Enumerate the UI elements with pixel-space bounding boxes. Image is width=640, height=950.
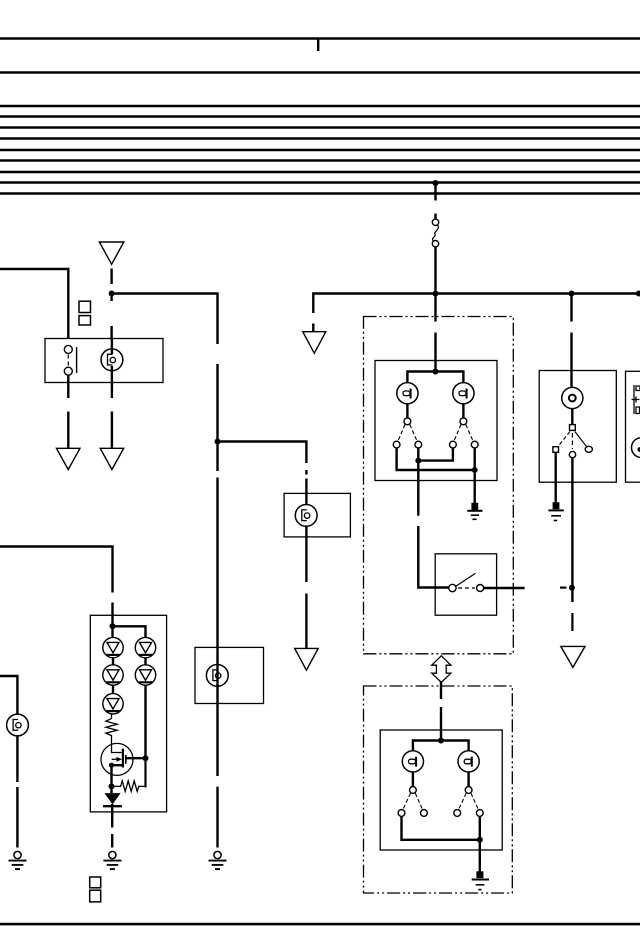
node TD3 bbox=[477, 837, 483, 843]
bulb B1 bracket bbox=[108, 354, 113, 365]
terminal RM bbox=[569, 451, 575, 457]
transistor Q1 gate bar bbox=[125, 755, 127, 764]
page connector arrow T1 bbox=[303, 332, 326, 354]
wire from left edge y676 bbox=[0, 676, 17, 714]
wire below diode bbox=[111, 804, 113, 828]
double arrow DA bbox=[432, 656, 451, 683]
wire TD to ground G1 bbox=[474, 470, 476, 503]
wire LEDR1-LEDR2 bbox=[144, 658, 146, 665]
wire ST2 out of DB1 bbox=[484, 587, 525, 589]
box B1 (lamp + switch unit) bbox=[45, 339, 163, 383]
wire coil3 to contact bbox=[412, 772, 414, 787]
wire below SW1 bbox=[67, 375, 69, 398]
wire x217 long run bbox=[216, 478, 218, 777]
resistor R2 (horizontal zigzag) bbox=[112, 781, 145, 792]
switch arm C4-TC2 bbox=[459, 793, 467, 809]
tick on bus line 1 bbox=[317, 39, 319, 51]
switch box SB1 bbox=[435, 554, 496, 615]
dashed wire to arrow T2 bbox=[305, 594, 307, 649]
node on bus line 10 bbox=[433, 180, 439, 186]
node G (gate) bbox=[143, 755, 149, 761]
bulb B2 filament bbox=[304, 513, 309, 518]
armature square SQ bbox=[570, 425, 576, 431]
node R2a bbox=[438, 738, 444, 744]
circuit breaker CB (top terminal) bbox=[432, 219, 438, 225]
node H2 bbox=[569, 291, 575, 297]
terminal RR (ellipse) bbox=[585, 446, 592, 452]
feed rail right section bbox=[313, 294, 640, 314]
switch SW1 dashed contact bbox=[67, 355, 69, 367]
transistor Q1 source line bbox=[111, 764, 123, 766]
partial bulb filament bbox=[637, 447, 640, 452]
bus line 1 bbox=[0, 37, 640, 39]
wire to ground G4 bbox=[16, 787, 18, 848]
connector code square S1 bbox=[79, 301, 91, 312]
bus line 5 bbox=[0, 126, 640, 128]
wire inside DB1 bbox=[434, 333, 436, 372]
wire into box B2 bbox=[305, 479, 307, 505]
relay arm left (dashed) bbox=[558, 432, 570, 447]
node L1 bbox=[109, 291, 115, 297]
circuit breaker CB (bottom terminal) bbox=[432, 241, 438, 247]
terminal TC2 bbox=[454, 810, 461, 817]
branch to bulb box B2 bbox=[218, 442, 307, 464]
ground G6 bbox=[209, 851, 227, 869]
coil feed tee 2 bbox=[413, 741, 469, 752]
relay coil B5 inner bbox=[569, 395, 576, 402]
wire TB2 run 2 bbox=[418, 526, 449, 588]
diode D1 (filled) bbox=[104, 793, 120, 804]
wire coil2 to contact bbox=[462, 404, 464, 418]
dashed contact line bbox=[458, 587, 475, 589]
wire below bulb B4 bbox=[16, 736, 18, 783]
bus line 6 bbox=[0, 137, 640, 139]
relay box RB (headlight relay) bbox=[539, 371, 616, 483]
relay coil B5 bbox=[562, 387, 583, 408]
wire into relay box RB bbox=[570, 333, 572, 389]
terminal RL (square) bbox=[553, 447, 559, 453]
node D1 anode bbox=[109, 783, 115, 789]
contact pivot C2 bbox=[460, 418, 467, 425]
dashed wire from arrow A2 to node L1 bbox=[110, 269, 112, 285]
node R1a bbox=[433, 369, 439, 375]
switch SW1 lower terminal bbox=[64, 367, 72, 375]
dashed stub to lower contact bbox=[571, 433, 573, 449]
dashed component box DB1 (light control switch) bbox=[364, 317, 514, 654]
wire TD2 down to ground bbox=[479, 816, 481, 871]
bus line 3 bbox=[0, 105, 640, 107]
switch arm C3-TA2 bbox=[403, 793, 411, 809]
terminal TC bbox=[450, 441, 457, 448]
bulb B3 filament bbox=[216, 673, 221, 678]
wire from left edge y546 bbox=[0, 547, 113, 593]
wire RM down bbox=[571, 458, 573, 602]
ground G1 bbox=[467, 503, 482, 520]
bulb B1 filament bbox=[110, 357, 115, 362]
bus line 9 bbox=[0, 171, 640, 173]
switch SW1 upper terminal bbox=[64, 345, 72, 353]
relay coil RC1 bbox=[397, 383, 418, 404]
dashed wire to ground G5 bbox=[111, 834, 113, 848]
dashed wire to arrow T3 bbox=[571, 613, 573, 631]
feed rail left section bbox=[112, 294, 218, 345]
bulb B3 bracket bbox=[213, 670, 218, 681]
page connector arrow T4 bbox=[57, 448, 81, 469]
bulb B4 filament bbox=[16, 723, 21, 728]
switch arm C4-TD2 bbox=[471, 793, 478, 809]
wire stub through DB2 top bbox=[440, 682, 442, 700]
node M1 bbox=[215, 439, 221, 445]
dashed link to node H4 bbox=[560, 586, 567, 588]
bus line 2 bbox=[0, 71, 640, 73]
transistor Q1 drain line bbox=[126, 757, 146, 759]
node TB2 bbox=[415, 458, 421, 464]
connector code square S4 bbox=[90, 890, 101, 902]
relay coil RC2 bbox=[453, 383, 474, 404]
bus line 11 bbox=[0, 192, 640, 194]
LED R2 bbox=[135, 665, 155, 685]
contact pivot C4 bbox=[465, 787, 472, 794]
node N1 bbox=[110, 623, 116, 629]
diode D1 cathode bar bbox=[103, 805, 122, 807]
dashed wire to arrow T4 bbox=[67, 412, 69, 449]
wire right column down bbox=[144, 685, 146, 758]
relay coil RC3 bbox=[402, 751, 423, 772]
terminal TD bbox=[471, 441, 478, 448]
terminal TD2c bbox=[476, 810, 483, 817]
wire LED2-LED3 bbox=[112, 685, 114, 693]
dashed wire to arrow T5 bbox=[111, 412, 113, 449]
ground G4 bbox=[9, 851, 27, 869]
bulb B2 bracket bbox=[302, 510, 307, 521]
wire from breaker down to node H1 bbox=[434, 247, 436, 294]
switch arm C1-TB bbox=[410, 425, 417, 442]
wire stub above breaker bbox=[434, 214, 436, 220]
connector code square S3 bbox=[90, 877, 101, 888]
wire below box B2 bbox=[305, 527, 307, 583]
switch arm C1-TA bbox=[398, 425, 405, 442]
wire into IB2 bbox=[440, 707, 442, 741]
node H3 (page edge) bbox=[636, 291, 640, 297]
inner box IB1 bbox=[375, 361, 497, 481]
bus line 4 bbox=[0, 115, 640, 117]
switch terminal ST2 bbox=[477, 585, 484, 592]
wire TA down and across bbox=[397, 448, 475, 470]
ground G2 bbox=[548, 502, 563, 520]
LED L2 bbox=[103, 665, 123, 685]
wire into LED box bbox=[111, 603, 113, 627]
bus line 10 bbox=[0, 181, 640, 183]
wire LED1-LED2 bbox=[112, 658, 114, 665]
page connector arrow A2 (top) bbox=[99, 242, 123, 264]
connector glyphs in RB2 bbox=[632, 385, 640, 414]
switch arm C2-TC bbox=[454, 425, 461, 442]
LED L3 bbox=[103, 694, 123, 714]
wire gate column down to R2 bbox=[144, 758, 147, 786]
wire into bulb B1 bbox=[111, 339, 113, 355]
wire out of bulb B1 bbox=[111, 366, 113, 398]
terminal TB2c bbox=[421, 810, 428, 817]
wire stub below corner x313 bbox=[312, 324, 314, 332]
bulb B3 lamp bbox=[206, 665, 228, 687]
bottom border bbox=[0, 923, 640, 926]
LED L1 bbox=[103, 637, 123, 657]
wire coil1 to contact bbox=[406, 404, 408, 418]
contact pivot C1 bbox=[404, 418, 411, 425]
relay coil RC4 bbox=[458, 751, 479, 772]
wire x217 below node bbox=[216, 442, 218, 472]
terminal TA bbox=[393, 441, 400, 448]
box B2 (illumination lamp) bbox=[284, 493, 350, 537]
right edge box RB2 bbox=[626, 371, 640, 482]
switch arm C3-TB2 bbox=[415, 793, 422, 809]
wire x217 segment 2 bbox=[216, 364, 218, 442]
wire from bus down to breaker bbox=[434, 183, 436, 201]
switch terminal ST1 bbox=[449, 584, 456, 591]
page connector arrow T3 bbox=[561, 646, 585, 667]
dashed segs into box B2 bbox=[305, 470, 307, 475]
dashed wire into box B1 bbox=[110, 326, 112, 339]
switch arm bbox=[456, 573, 476, 586]
wire TB2 down bbox=[417, 461, 419, 516]
bulb B4 lamp bbox=[7, 714, 29, 736]
switch SW1 bar bbox=[76, 347, 78, 373]
relay arm right bbox=[575, 432, 587, 447]
LED R1 bbox=[135, 637, 155, 657]
link TB-TC bbox=[418, 448, 453, 461]
wire coil to armature bbox=[571, 409, 573, 425]
wire RL to ground G2 bbox=[555, 452, 557, 502]
ground G5 bbox=[103, 851, 121, 869]
wire H2 down bbox=[570, 294, 572, 322]
node S (source) bbox=[109, 763, 114, 768]
node TD2 bbox=[472, 467, 478, 473]
branch to right LED column bbox=[113, 626, 146, 637]
box B4 (combination meter) bbox=[90, 615, 166, 812]
dashed component box DB2 (dimmer switch) bbox=[364, 686, 513, 893]
wire TB down bbox=[417, 448, 419, 461]
transistor Q1 arrow bbox=[112, 758, 117, 760]
partial bulb in RB2 bbox=[632, 438, 640, 458]
page connector arrow T2 bbox=[295, 648, 319, 670]
page connector arrow T5 bbox=[100, 448, 124, 469]
node H4 bbox=[569, 585, 575, 591]
ground G3 bbox=[472, 871, 489, 889]
transistor Q1 channel bar bbox=[122, 749, 124, 768]
contact pivot C3 bbox=[410, 787, 417, 794]
terminal TA2 bbox=[398, 810, 405, 817]
bus line 7 bbox=[0, 149, 640, 151]
bulb B1 lamp bbox=[101, 349, 123, 371]
dashed wire below node L1 bbox=[110, 294, 112, 302]
wire coil4 to contact bbox=[467, 772, 469, 787]
wire TD down bbox=[474, 448, 476, 470]
wire x217 to ground bbox=[216, 787, 218, 848]
connector code square S2 bbox=[79, 316, 91, 325]
box B3 (taillight bulb) bbox=[195, 647, 264, 703]
switch arm C2-TD bbox=[466, 425, 473, 442]
wire to LED1 bbox=[111, 626, 113, 637]
wire into DB1 bbox=[434, 294, 436, 322]
bulb B2 lamp bbox=[295, 505, 317, 527]
inner box IB2 bbox=[380, 730, 502, 850]
resistor R1 (vertical zigzag) bbox=[106, 714, 122, 753]
wire TA2 down and across bbox=[402, 816, 480, 839]
wire from left edge at y269 bbox=[0, 269, 68, 339]
bulb B4 bracket bbox=[13, 720, 18, 731]
bus line 8 bbox=[0, 159, 640, 161]
coil feed tee bbox=[407, 372, 463, 383]
node H1 bbox=[433, 291, 439, 297]
wire source down bbox=[110, 765, 112, 786]
circuit breaker CB (S curve) bbox=[433, 225, 439, 241]
transistor Q1 body bbox=[101, 743, 133, 775]
terminal TB bbox=[415, 441, 422, 448]
